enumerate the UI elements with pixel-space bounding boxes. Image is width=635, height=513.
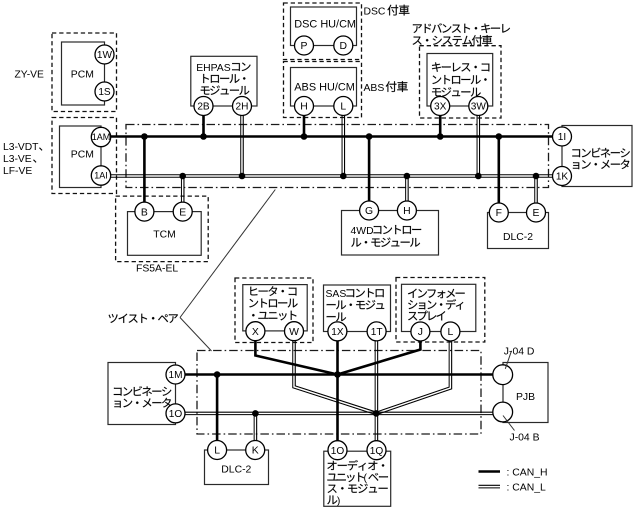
bus enclosure top (dash-dot) (126, 125, 549, 188)
svg-text:E: E (533, 208, 540, 219)
label keyless line3 (432, 87, 481, 96)
bus enclosure bottom (dash-dot) (197, 351, 481, 435)
label info line2 (408, 299, 463, 310)
label ABS HU/CM (294, 82, 355, 94)
module enclosure keyless (dashed) (420, 46, 502, 118)
wire info J to CAN_H (338, 332, 421, 375)
wire 4WD H to CAN_L (406, 176, 409, 211)
label L3-VDT (3, 142, 42, 153)
label L3-VE (3, 154, 36, 165)
label combination meter top line1 (572, 148, 630, 158)
svg-text:LF-VE: LF-VE (3, 166, 32, 177)
pin B (TCM) (135, 202, 154, 221)
label combination meter bottom line1 (114, 386, 172, 396)
svg-text:ABS: ABS (364, 83, 385, 94)
pin J-04 D (PJB) (493, 365, 513, 385)
pin W (heater) (285, 322, 304, 341)
svg-text:1K: 1K (556, 172, 569, 183)
wire 3W to CAN_L (477, 106, 480, 176)
label heater line3 (252, 311, 296, 321)
svg-text:SAS: SAS (326, 289, 347, 300)
wire DLC-2 E to CAN_L (535, 176, 538, 213)
svg-text:1AM: 1AM (92, 132, 111, 142)
junction CAN_H bottom star point (334, 371, 341, 378)
svg-text:PJB: PJB (516, 392, 535, 403)
wire ABS L to CAN_L (342, 106, 345, 176)
svg-text:D: D (340, 41, 348, 52)
legend CAN_L text (507, 483, 546, 494)
svg-text:J: J (418, 327, 423, 338)
svg-text:H: H (403, 206, 411, 217)
pin G (4WD) (360, 201, 379, 220)
box DSC HU/CM (291, 7, 357, 46)
pin 1M (166, 365, 185, 384)
svg-text:1I: 1I (558, 132, 566, 143)
label info line1 (408, 289, 465, 299)
pin D (334, 36, 353, 55)
svg-text:4WD: 4WD (351, 226, 374, 237)
svg-text:J-04 D: J-04 D (504, 347, 535, 358)
pin 1T (SAS) (367, 322, 386, 341)
pin 1I (553, 127, 572, 146)
pin 3W (469, 97, 488, 116)
svg-text:DSC: DSC (364, 7, 386, 18)
svg-text:X: X (252, 327, 259, 338)
label DLC-2 (bottom) (221, 465, 251, 476)
pin X (heater) (246, 322, 265, 341)
svg-text:: CAN_L: : CAN_L (507, 483, 546, 494)
box combination meter (top) (562, 126, 632, 187)
label info line3 (408, 311, 445, 321)
twisted-pair pointer line upper (180, 190, 275, 318)
wire ABS H to CAN_H (303, 106, 306, 137)
svg-text:TCM: TCM (153, 229, 176, 240)
module enclosure DSC (dashed) (284, 3, 362, 60)
pin 3X (431, 97, 450, 116)
junction CAN_L / DLC-2 E (533, 173, 540, 180)
label DLC-2 (top) (503, 232, 533, 243)
box heater control unit (243, 285, 307, 331)
label audio line1 (327, 460, 384, 471)
svg-text:K: K (252, 446, 259, 457)
svg-text:W: W (289, 327, 299, 338)
box EHPAS control module (191, 56, 257, 106)
wire CAN_H bus (bottom) (176, 373, 494, 376)
svg-text:1S: 1S (98, 87, 111, 98)
svg-text:): ) (337, 496, 340, 507)
label ZY-VE (15, 70, 45, 81)
svg-text:1O: 1O (169, 409, 183, 420)
label J-04 B (510, 433, 540, 444)
svg-text:EHPAS: EHPAS (196, 63, 231, 74)
pin 1K (553, 167, 572, 186)
wire 2B to CAN_H (202, 106, 205, 137)
label J-04 D (504, 347, 535, 358)
svg-text:1Q: 1Q (370, 446, 384, 457)
svg-text:2H: 2H (236, 102, 249, 113)
box TCM (128, 212, 202, 256)
junction CAN_L / 4WD H (404, 173, 411, 180)
svg-text:DLC-2: DLC-2 (503, 232, 533, 243)
box keyless control module (427, 54, 493, 107)
pin 1AI (91, 166, 110, 185)
pin J-04 B (PJB) (493, 402, 513, 422)
svg-text:1AI: 1AI (94, 171, 108, 181)
label audio line2 (327, 472, 364, 482)
svg-text:L3-VE: L3-VE (3, 154, 32, 165)
junction CAN_H / DLC-2 F (496, 133, 503, 140)
label keyless line1 (432, 62, 489, 71)
label EHPAS line1 (196, 63, 250, 74)
box DLC-2 (bottom) (205, 450, 269, 485)
pin 1AM (91, 127, 110, 146)
pin L (ABS) (334, 97, 353, 116)
svg-text:E: E (179, 207, 186, 218)
wire DLC-2 L to CAN_H (216, 375, 219, 451)
svg-text:B: B (141, 207, 148, 218)
svg-text:PCM: PCM (71, 149, 94, 160)
module enclosure TCM (dashed) (116, 196, 209, 262)
wire TCM B to CAN_H (143, 137, 146, 212)
module enclosure L3 PCM (dashed) (52, 118, 117, 194)
pin 1Q (audio) (367, 441, 386, 460)
svg-text:L: L (448, 327, 454, 338)
svg-text:1W: 1W (97, 50, 113, 61)
module enclosure ZY-VE PCM (dashed) (52, 33, 117, 112)
junction CAN_L / TCM E (179, 173, 186, 180)
wire TCM E to CAN_L (181, 176, 184, 212)
label audio line3 (328, 484, 388, 493)
svg-text:1T: 1T (371, 327, 383, 338)
label SAS line2 (327, 300, 385, 309)
label 4WD line2 (351, 238, 420, 247)
wire DLC-2 F to CAN_H (497, 137, 500, 213)
label advanced keyless line1 (413, 23, 510, 33)
svg-text:1O: 1O (331, 446, 345, 457)
svg-text:1M: 1M (168, 370, 182, 381)
svg-text:FS5A-EL: FS5A-EL (136, 264, 178, 275)
twisted-pair pointer line lower (180, 318, 212, 352)
svg-text:3X: 3X (434, 102, 447, 113)
svg-text:2B: 2B (197, 102, 210, 113)
wire CAN_H bus (top) (111, 135, 553, 138)
label keyless line2 (432, 75, 486, 84)
wire SAS 1T to audio 1Q (375, 331, 378, 450)
wire CAN_L bus (top) (111, 175, 553, 178)
label advanced keyless line2 (413, 35, 493, 45)
junction CAN_L / ABS L (340, 173, 347, 180)
label PCM (ZY-VE) (71, 70, 94, 81)
wire CAN_L bus (bottom) (176, 412, 494, 415)
wire 3X to CAN_H (439, 106, 442, 137)
box audio unit (324, 451, 391, 506)
box DLC-2 (top) (488, 213, 549, 249)
svg-text:ABS HU/CM: ABS HU/CM (294, 82, 355, 94)
junction CAN_H / TCM B (141, 133, 148, 140)
svg-text:L: L (214, 446, 220, 457)
box ABS HU/CM (291, 68, 357, 107)
legend CAN_H text (507, 468, 548, 479)
pin E (DLC-2) (527, 203, 546, 222)
junction CAN_L bottom star point (373, 410, 380, 417)
label EHPAS line2 (203, 74, 245, 83)
box information display (402, 284, 476, 331)
label 4WD line1 (351, 225, 422, 237)
pin L (DLC-2 bottom) (208, 441, 227, 460)
svg-text:DLC-2: DLC-2 (221, 465, 251, 476)
junction CAN_H / ABS H (301, 133, 308, 140)
pin 2B (194, 97, 213, 116)
pin 1X (SAS) (328, 322, 347, 341)
junction CAN_H / 4WD G (366, 133, 373, 140)
svg-text:G: G (365, 206, 373, 217)
svg-text:(: ( (364, 473, 368, 484)
svg-text:ZY-VE: ZY-VE (15, 70, 45, 81)
svg-text:H: H (300, 102, 308, 113)
pin P (295, 36, 314, 55)
pin K (DLC-2 bottom) (246, 441, 265, 460)
module enclosure heater (dashed) (235, 278, 313, 343)
leader J-04 B (503, 416, 515, 431)
module enclosure info display (dashed) (396, 278, 485, 343)
pin 1O (audio) (328, 441, 347, 460)
pin L (info) (441, 322, 460, 341)
svg-text:3W: 3W (471, 102, 487, 113)
pin F (DLC-2) (489, 203, 508, 222)
legend CAN_H line sample (479, 470, 501, 473)
wire DLC-2 K to CAN_L (254, 413, 257, 450)
junction CAN_H / 2B (200, 133, 207, 140)
box PCM (ZY-VE) (62, 42, 105, 105)
svg-text:: CAN_H: : CAN_H (507, 468, 548, 479)
svg-text:F: F (496, 208, 502, 219)
label SAS line1 (326, 288, 384, 300)
svg-text:1X: 1X (331, 327, 344, 338)
junction CAN_L / 3W (475, 173, 482, 180)
junction CAN_H / 3X (437, 133, 444, 140)
legend CAN_L line sample (479, 485, 501, 488)
pin 1W (95, 45, 114, 64)
label TCM (153, 229, 176, 240)
label audio line4 (327, 496, 337, 505)
label PJB (516, 392, 535, 403)
pin 2H (233, 97, 252, 116)
junction CAN_H bottom / DLC-2 L (214, 371, 221, 378)
pin 1S (95, 82, 114, 101)
junction CAN_L bottom / DLC-2 K (252, 410, 259, 417)
wire 2H to CAN_L (241, 106, 244, 176)
pin H (4WD) (397, 201, 416, 220)
pin 1O (meter) (166, 404, 185, 423)
label FS5A-EL (136, 264, 178, 275)
wire info L to CAN_L (376, 331, 452, 415)
label twisted pair (109, 314, 178, 323)
label heater line2 (249, 298, 297, 307)
wire 4WD G to CAN_H (368, 137, 371, 211)
leader J-04 D (505, 351, 511, 369)
pin E (TCM) (173, 202, 192, 221)
label DSC-fitted (364, 5, 410, 18)
svg-text:L: L (340, 102, 346, 113)
box combination meter (bottom) (108, 363, 176, 425)
label DSC HU/CM (294, 19, 356, 31)
svg-text:PCM: PCM (71, 70, 94, 81)
label PCM (L3) (71, 149, 94, 160)
label heater line1 (250, 286, 296, 296)
box PJB (503, 363, 548, 423)
label LF-VE (3, 166, 32, 177)
label combination meter bottom line2 (114, 398, 170, 408)
junction CAN_L / 2H (239, 173, 246, 180)
svg-text:L3-VDT: L3-VDT (3, 142, 39, 153)
svg-text:DSC HU/CM: DSC HU/CM (294, 19, 356, 31)
pin H (ABS) (295, 97, 314, 116)
svg-text:J-04 B: J-04 B (510, 433, 540, 444)
wire heater X to CAN_H (255, 331, 337, 375)
box SAS control module (324, 285, 391, 332)
label EHPAS line3 (201, 86, 250, 95)
label ABS-fitted (364, 81, 408, 94)
pin J (info) (411, 322, 430, 341)
label combination meter top line2 (573, 159, 629, 169)
box 4WD control module (342, 211, 439, 256)
wire SAS 1X to audio 1O (336, 332, 339, 450)
wire heater W to CAN_L (293, 331, 377, 415)
svg-text:P: P (301, 41, 308, 52)
box PCM (L3) (60, 126, 102, 188)
module enclosure ABS (dashed) (284, 62, 362, 118)
label SAS line3 (327, 313, 346, 322)
